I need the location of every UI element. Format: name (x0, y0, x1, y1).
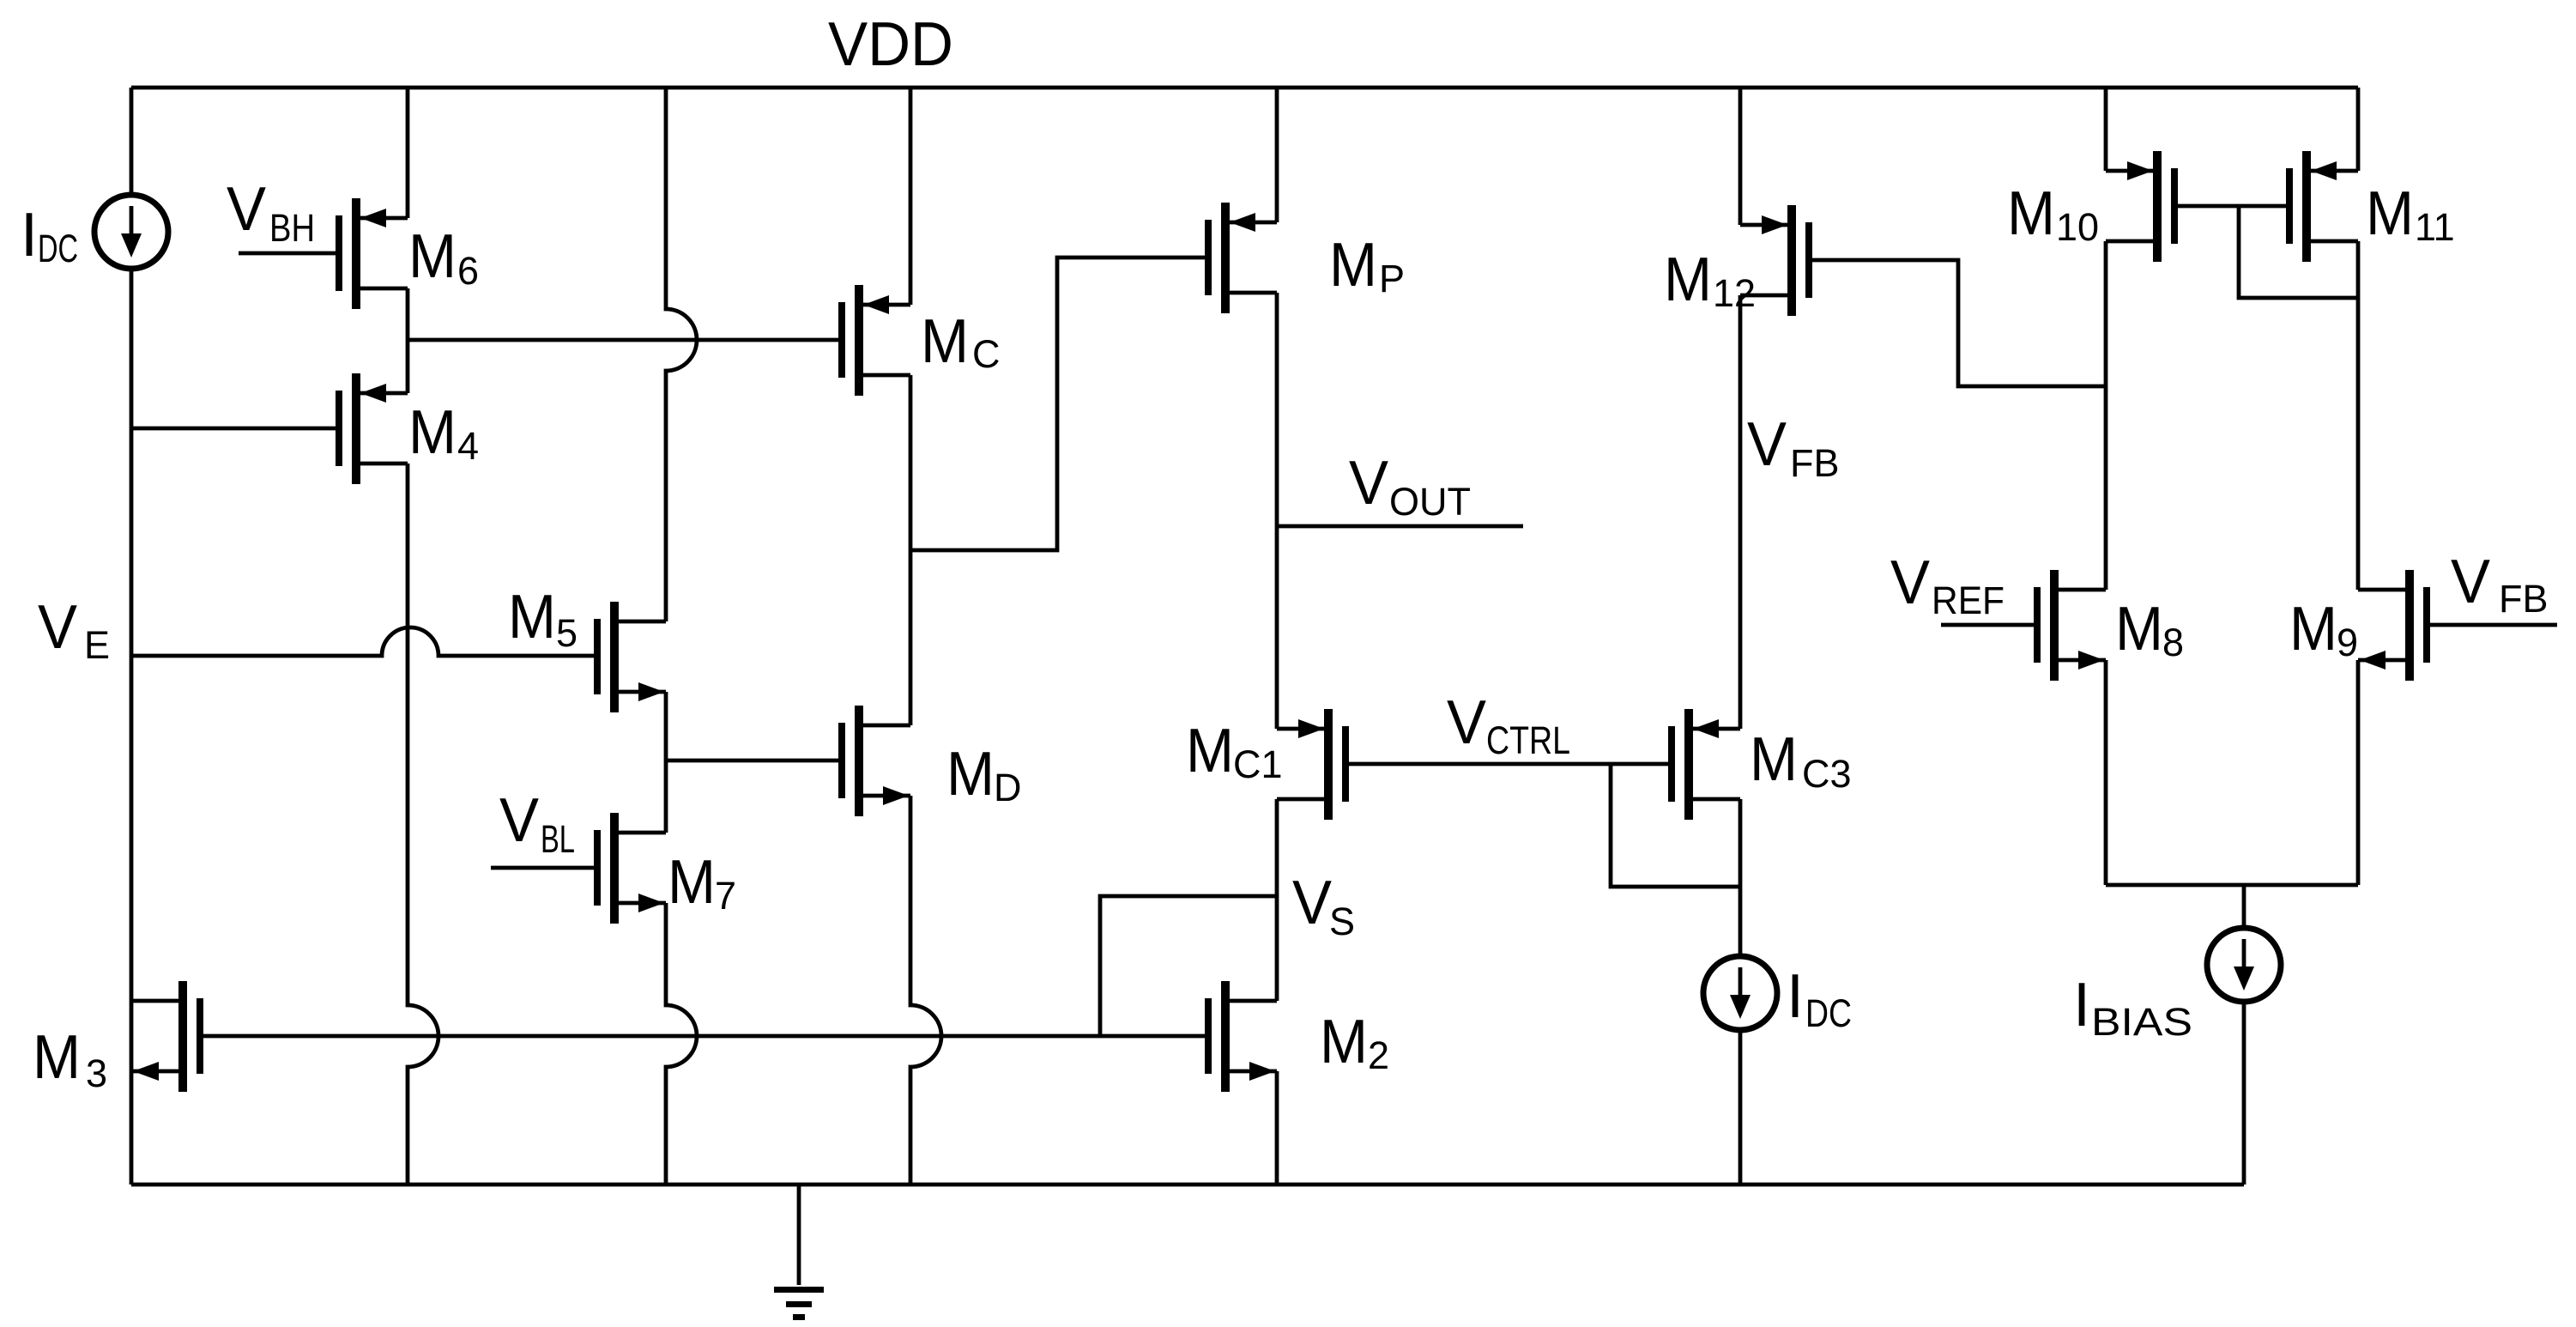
current source label IDC left (21, 201, 78, 270)
wire MC3 source down to IDC source (1738, 799, 1743, 954)
svg-text:M: M (1186, 717, 1234, 785)
wire MC1 drain to node VS (1275, 799, 1279, 1001)
svg-text:M: M (408, 398, 457, 467)
transistor MC1 (1277, 709, 1349, 820)
transistor MD (838, 706, 910, 816)
svg-text:OUT: OUT (1389, 480, 1471, 524)
current source IDC right (1703, 956, 1777, 1030)
wire M4 gate to left column (131, 427, 336, 431)
svg-text:M: M (408, 222, 457, 291)
node VREF (1890, 548, 2005, 622)
wire MP drain down to MC1 source through node VOUT (1275, 293, 1279, 729)
svg-text:M: M (1750, 725, 1798, 794)
svg-text:3: 3 (86, 1051, 107, 1095)
svg-text:V: V (1292, 869, 1332, 937)
label M7 (668, 848, 736, 918)
wire M5 source to M7 drain (664, 692, 668, 833)
node VDD (828, 10, 953, 79)
transistor MC (838, 285, 910, 396)
svg-text:10: 10 (2056, 205, 2099, 249)
label M12 (1664, 245, 1756, 315)
label M9 (2289, 595, 2358, 664)
svg-text:M: M (2115, 595, 2163, 663)
wire M7 source to bottom rail (hops over gate bus) (666, 903, 697, 1185)
wire VBL to M7 gate (491, 866, 594, 870)
svg-text:V: V (499, 786, 539, 855)
transistor M7 (594, 813, 666, 924)
current source IBIAS (2207, 928, 2281, 1002)
wire MP source to VDD rail (1275, 88, 1279, 222)
current source label IBIAS (2073, 971, 2192, 1044)
svg-text:S: S (1329, 900, 1355, 943)
svg-text:M: M (946, 740, 995, 809)
transistor M4 (336, 373, 408, 484)
node VFB middle (1747, 410, 1840, 485)
svg-text:7: 7 (715, 874, 736, 918)
label MC (921, 307, 1001, 376)
wire M9 source down to tail node (2356, 660, 2361, 885)
label MC1 (1186, 717, 1283, 786)
label MD (946, 740, 1022, 809)
svg-text:M: M (1664, 245, 1712, 314)
node VOUT (1349, 449, 1471, 524)
label M11 (2366, 179, 2455, 249)
transistor M12 (1740, 205, 1812, 316)
wire node VCTRL MC1 gate to MC3 gate (1349, 762, 1668, 767)
label MP (1329, 231, 1405, 300)
node VBH (227, 175, 315, 250)
transistor M5 (594, 602, 666, 712)
svg-text:DC: DC (1805, 991, 1852, 1035)
wire gate bus M3 to M2 (203, 1034, 1205, 1039)
svg-text:CTRL: CTRL (1486, 718, 1570, 762)
svg-text:V: V (2451, 548, 2490, 616)
svg-text:BH: BH (269, 206, 315, 250)
svg-text:6: 6 (457, 249, 479, 293)
node VBL (499, 786, 575, 861)
node VE (38, 593, 110, 667)
transistor M11 (2286, 151, 2358, 262)
svg-text:V: V (1349, 449, 1388, 518)
wire M4 drain down to bottom rail (hops over gate bus) (408, 464, 438, 1185)
svg-text:V: V (1747, 410, 1787, 479)
svg-text:M: M (2289, 595, 2337, 663)
wire node VE to M5 gate (hops over M4 drain column) (131, 627, 594, 656)
label M4 (408, 398, 479, 468)
svg-text:I: I (1787, 962, 1804, 1031)
wire node VS jog to gate bus (1100, 896, 1277, 1036)
wire VDD top rail (131, 86, 2358, 90)
wire MD gate to M5/M7 node (666, 759, 838, 763)
label M3 (33, 1023, 107, 1095)
svg-text:M: M (668, 848, 716, 917)
svg-text:DC: DC (38, 227, 78, 270)
svg-text:2: 2 (1368, 1033, 1389, 1077)
current source IDC left (94, 195, 168, 269)
node VS (1292, 869, 1355, 943)
label M5 (508, 583, 577, 655)
svg-text:M: M (1329, 231, 1377, 300)
label MC3 (1750, 725, 1852, 796)
wire VBH to M6 gate (239, 251, 336, 256)
svg-text:M: M (508, 583, 556, 651)
svg-text:BL: BL (541, 817, 575, 861)
svg-text:M: M (2366, 179, 2414, 248)
svg-text:C3: C3 (1802, 752, 1852, 796)
svg-text:8: 8 (2162, 621, 2184, 664)
svg-text:FB: FB (1790, 441, 1840, 485)
svg-text:C: C (972, 332, 1001, 376)
transistor M2 (1205, 981, 1277, 1092)
wire left column below IDC source down to bottom rail (130, 270, 134, 1185)
ground (774, 1287, 824, 1320)
wire differential pair tail (2106, 883, 2358, 888)
svg-text:VDD: VDD (828, 10, 953, 79)
label M8 (2115, 595, 2184, 664)
transistor M8 (2034, 570, 2106, 681)
wire M9 gate to VFB (2430, 623, 2557, 627)
transistor MC3 (1668, 709, 1740, 820)
svg-text:4: 4 (457, 424, 479, 468)
svg-text:V: V (227, 175, 266, 244)
wire MC drain to MD drain (909, 375, 913, 725)
wire M10 source to VDD rail (2104, 88, 2108, 171)
transistor M9 (2358, 570, 2430, 681)
wire M11 source to VDD rail (2356, 88, 2361, 171)
svg-text:11: 11 (2415, 205, 2455, 249)
current source label IDC right (1787, 962, 1852, 1035)
wire M11 drain to M9 drain (2356, 241, 2361, 590)
node VCTRL (1447, 688, 1570, 762)
label M6 (408, 222, 479, 293)
wire ground stem (797, 1185, 801, 1285)
svg-text:I: I (2073, 971, 2090, 1039)
wire MD source to bottom rail (hops over gate bus) (910, 796, 941, 1185)
wire MC drain node to MP gate (910, 258, 1205, 550)
wire M8 source down to tail node (2104, 660, 2108, 885)
wire M6 source to VDD rail (406, 88, 410, 218)
transistor M3 (131, 981, 203, 1092)
wire M11 gate to M11 drain (diode connection) (2239, 206, 2358, 298)
wire M6 drain node to MC gate (408, 338, 838, 342)
svg-text:M: M (33, 1023, 81, 1092)
svg-text:C1: C1 (1233, 742, 1283, 786)
svg-text:REF: REF (1932, 579, 2005, 622)
svg-text:V: V (38, 593, 77, 662)
svg-text:V: V (1890, 548, 1930, 617)
wire M2 source to bottom rail (1275, 1071, 1279, 1185)
wire left column above IDC source (130, 88, 134, 193)
transistor M10 (2106, 151, 2178, 262)
svg-text:5: 5 (556, 611, 577, 655)
wire tail node to IBIAS source (2242, 885, 2246, 928)
wire VREF to M8 gate (1941, 623, 2034, 627)
wire MC source to VDD rail (909, 88, 913, 305)
svg-text:FB: FB (2499, 577, 2549, 621)
wire M6 drain to M4 source (406, 288, 410, 393)
svg-text:M: M (2007, 179, 2055, 248)
wire node VOUT stub (1277, 524, 1523, 529)
svg-text:P: P (1379, 257, 1405, 300)
wire M12 drain to VDD rail (1738, 88, 1743, 225)
label M10 (2007, 179, 2099, 249)
wire VCTRL jog down to MC3 source (1611, 764, 1740, 887)
svg-text:I: I (21, 201, 38, 270)
svg-text:D: D (994, 766, 1022, 809)
wire M12 source to MC3 drain (node VFB) (1738, 295, 1743, 729)
wire M5 drain to VDD rail (hops over MC gate wire) (666, 88, 697, 621)
transistor MP (1205, 203, 1277, 313)
node VFB right (2451, 548, 2549, 621)
wire M10 gate to M11 gate (2178, 204, 2286, 209)
wire IDC source to bottom rail (1738, 1032, 1743, 1185)
label M2 (1320, 1008, 1389, 1077)
svg-text:M: M (1320, 1008, 1368, 1076)
transistor M6 (336, 198, 408, 309)
svg-text:BIAS: BIAS (2091, 1000, 2192, 1044)
svg-text:V: V (1447, 688, 1486, 757)
svg-text:M: M (921, 307, 969, 376)
wire IBIAS source to bottom rail (2242, 1002, 2246, 1185)
wire M10 drain to M8 drain (2104, 241, 2108, 590)
svg-text:12: 12 (1713, 271, 1756, 315)
wire ground bottom rail (131, 1183, 2244, 1187)
svg-text:E: E (84, 623, 110, 667)
wire M12 gate jog to M10 drain column (1812, 260, 2106, 386)
svg-text:9: 9 (2337, 621, 2358, 664)
